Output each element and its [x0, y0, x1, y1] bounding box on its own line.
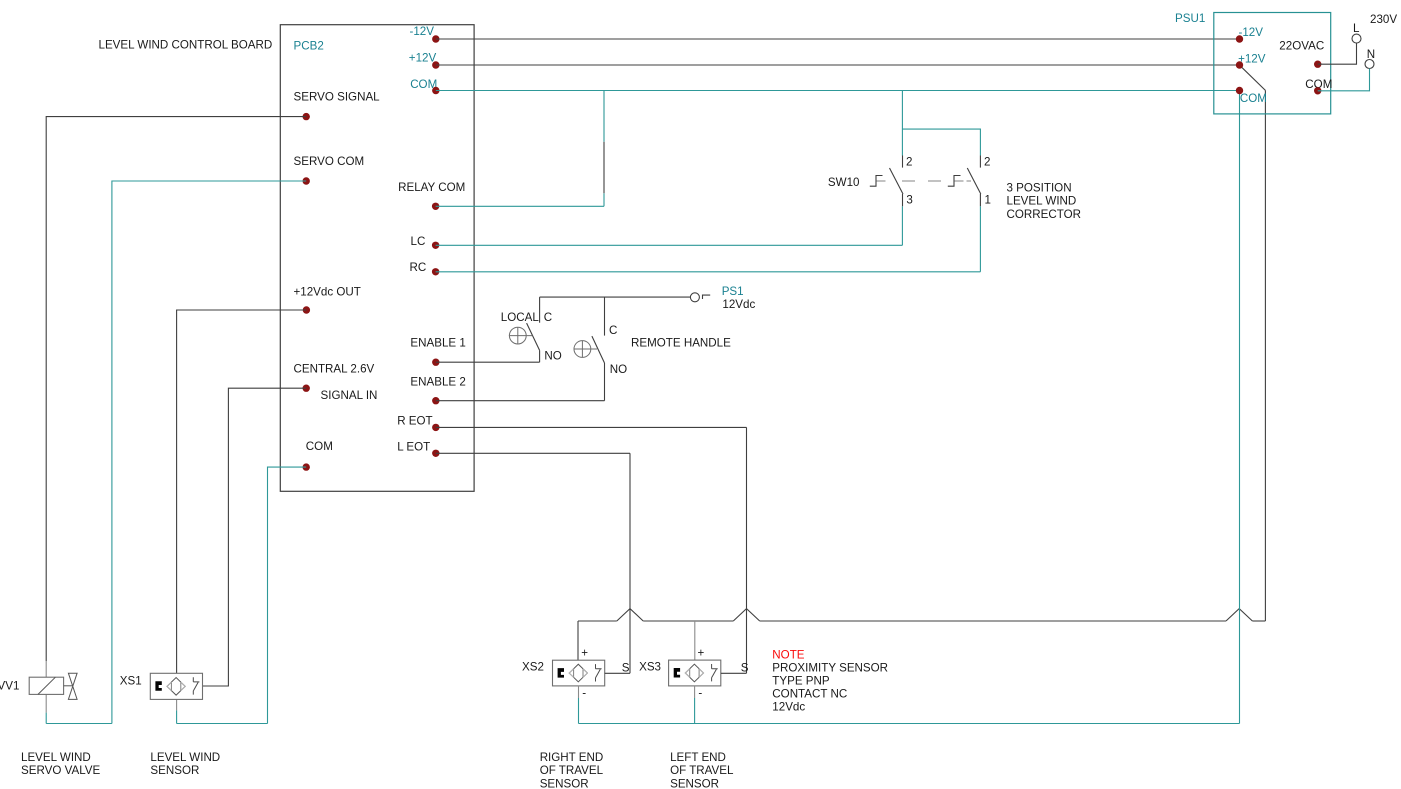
terminal dot RC	[432, 268, 439, 275]
terminal dot -12V	[432, 35, 439, 42]
terminal dot COM	[432, 87, 439, 94]
terminal dot PSU L	[1314, 60, 1321, 67]
SW10 pole2 pin 1 label	[985, 193, 991, 206]
label S (XS2)	[622, 661, 630, 674]
svg-text:SERVO SIGNAL: SERVO SIGNAL	[294, 91, 381, 104]
svg-text:2: 2	[906, 155, 912, 168]
svg-text:R EOT: R EOT	[397, 414, 432, 427]
label + (XS2)	[581, 647, 588, 660]
terminal dot L EOT	[432, 450, 439, 457]
wire SIGNAL IN to XS1 S	[203, 388, 307, 686]
svg-text:CORRECTOR: CORRECTOR	[1007, 208, 1082, 221]
wire PSU +12V diagonal	[1240, 66, 1265, 91]
wire hop over COM riser	[1226, 609, 1252, 621]
svg-text:PCB2: PCB2	[294, 39, 324, 52]
terminal dot ENABLE 2	[432, 397, 439, 404]
caption LEFT END OF TRAVEL SENSOR	[670, 751, 734, 789]
wire XS2 minus teal	[578, 698, 580, 724]
pin label SERVO SIGNAL	[294, 91, 381, 104]
switch REMOTE NO stub	[604, 363, 606, 373]
SW10 pole2 pin 2 label	[984, 155, 990, 168]
svg-text:L EOT: L EOT	[397, 440, 430, 453]
wire ENABLE 1	[436, 361, 540, 363]
svg-text:PSU1: PSU1	[1175, 12, 1205, 25]
pin label COM (PCB2)	[410, 78, 437, 91]
svg-text:CONTACT NC: CONTACT NC	[772, 687, 847, 700]
wire SW10 pole bridge	[902, 129, 980, 155]
wire COM branch to RELAY COM (dark middle)	[603, 142, 605, 194]
wire COM bottom right	[579, 723, 1240, 725]
label L	[1353, 22, 1360, 35]
svg-text:LC: LC	[411, 235, 426, 248]
pin label RC	[410, 261, 427, 274]
SW10 pole2 pin 2 stub	[979, 156, 981, 168]
label N	[1367, 48, 1375, 61]
YV1 top stub	[45, 661, 47, 677]
pin label ENABLE 2	[410, 375, 465, 388]
SW10 pole2 actuator bracket	[948, 176, 961, 187]
pin label RELAY COM	[398, 181, 465, 194]
label - (XS3)	[698, 686, 702, 699]
wire REMOTE NO drop	[604, 373, 606, 401]
svg-text:SENSOR: SENSOR	[150, 764, 199, 777]
svg-text:XS2: XS2	[522, 661, 544, 674]
svg-text:-12V: -12V	[410, 25, 435, 38]
wire +12Vdc OUT to XS1	[177, 310, 307, 673]
svg-text:12Vdc: 12Vdc	[772, 700, 805, 713]
svg-text:SENSOR: SENSOR	[670, 778, 719, 789]
wire XS1 COM bottom	[177, 723, 268, 725]
svg-text:+: +	[698, 647, 705, 660]
XS1 bottom stub gray	[176, 699, 178, 710]
svg-text:LEVEL WIND CONTROL BOARD: LEVEL WIND CONTROL BOARD	[99, 39, 273, 52]
note title	[772, 649, 804, 662]
terminal dot SERVO SIGNAL	[303, 113, 310, 120]
wire COM net horizontal	[436, 90, 1240, 92]
switch LOCAL C stub	[539, 297, 541, 323]
label 22OVAC	[1279, 40, 1324, 53]
YV1 valve body	[68, 673, 77, 699]
terminal dot SERVO COM	[303, 177, 310, 184]
label PCB2	[294, 39, 324, 52]
wire +12V net	[436, 64, 1240, 66]
wire +12V riser to PSU	[1264, 90, 1266, 621]
caption RIGHT END OF TRAVEL SENSOR	[540, 751, 604, 789]
svg-text:RELAY COM: RELAY COM	[398, 181, 465, 194]
label XS2	[522, 661, 544, 674]
pin label L EOT	[397, 440, 430, 453]
proximity sensor XS1	[150, 673, 202, 699]
wire +12V bottom segment b	[643, 620, 733, 622]
wire +12V bottom segment c	[760, 620, 1226, 622]
switch LOCAL NO stub	[539, 350, 541, 362]
label REMOTE HANDLE	[631, 336, 731, 349]
terminal dot +12Vdc OUT	[303, 306, 310, 313]
wire COM branch to RELAY COM (teal lower)	[603, 193, 605, 206]
proximity sensor XS2	[553, 660, 605, 686]
wire XS3 minus teal	[694, 698, 696, 724]
SW10 pole1 pin 2 stub	[902, 156, 904, 168]
terminal dot PSU N COM	[1314, 87, 1321, 94]
terminal dot R EOT	[432, 424, 439, 431]
wire XS3 plus drop	[694, 621, 696, 660]
wire R EOT horizontal	[436, 426, 747, 428]
svg-text:C: C	[544, 311, 552, 324]
pin label -12V (PCB2)	[410, 25, 435, 38]
PS1 terminal circle	[690, 293, 699, 302]
svg-text:PROXIMITY SENSOR: PROXIMITY SENSOR	[772, 661, 888, 674]
XS1 bottom stub teal	[176, 710, 178, 723]
wire RC	[436, 271, 981, 273]
svg-text:230V: 230V	[1370, 13, 1397, 26]
svg-text:NO: NO	[544, 350, 561, 363]
svg-text:ENABLE 1: ENABLE 1	[410, 336, 465, 349]
wire +12V bottom segment d	[1252, 620, 1265, 622]
SW10 mechanical linkage dashes	[877, 180, 972, 182]
svg-text:L: L	[1353, 22, 1360, 35]
svg-text:NOTE: NOTE	[772, 649, 804, 662]
switch REMOTE blade	[592, 336, 605, 363]
PSU1 box	[1214, 13, 1331, 114]
pin label LC	[411, 235, 426, 248]
label SW10	[828, 176, 860, 189]
label 12Vdc	[722, 298, 755, 311]
terminal dot PSU +12V	[1236, 61, 1243, 68]
svg-text:RC: RC	[410, 261, 427, 274]
wire +12V bottom segment a	[578, 620, 617, 622]
wire RELAY COM	[436, 205, 604, 207]
switch REMOTE C stub	[604, 297, 606, 336]
wire LC	[436, 244, 903, 246]
label 230V	[1370, 13, 1397, 26]
svg-text:SIGNAL IN: SIGNAL IN	[321, 389, 378, 402]
svg-text:S: S	[741, 661, 749, 674]
label +12V (PSU1)	[1238, 52, 1266, 65]
SW10 pole1 pin 2 label	[906, 155, 912, 168]
svg-text:12Vdc: 12Vdc	[722, 298, 755, 311]
label NO (REMOTE)	[610, 363, 627, 376]
wire XS3 minus stub	[694, 686, 696, 698]
terminal circle L	[1352, 34, 1361, 43]
terminal dot ENABLE 1	[432, 359, 439, 366]
svg-text:ENABLE 2: ENABLE 2	[410, 375, 465, 388]
wire SERVO SIGNAL	[46, 117, 306, 661]
label LEVEL WIND CONTROL BOARD	[99, 39, 273, 52]
YV1 bottom stub gray	[45, 694, 47, 712]
label XS1	[120, 674, 142, 687]
svg-text:N: N	[1367, 48, 1375, 61]
wire ENABLE 2	[436, 400, 605, 402]
label -12V (PSU1)	[1239, 26, 1264, 39]
svg-text:SW10: SW10	[828, 176, 860, 189]
SW10 pole2 pin 1 stub	[979, 194, 981, 206]
wire SW10 pin3 to LC	[901, 206, 903, 245]
wire R EOT vertical	[746, 427, 748, 673]
terminal dot PSU -12V	[1236, 35, 1243, 42]
svg-text:VV1: VV1	[0, 680, 19, 693]
YV1 valve stub	[64, 685, 73, 687]
svg-text:LEVEL WIND: LEVEL WIND	[1007, 195, 1077, 208]
terminal dot RELAY COM	[432, 203, 439, 210]
wire COM drop to SW10 pole 1	[901, 91, 903, 156]
wire XS2 minus stub	[578, 686, 580, 698]
wire COM branch to RELAY COM (teal upper)	[603, 91, 605, 142]
label - (XS2)	[582, 686, 586, 699]
YV1 bottom stub teal	[45, 713, 47, 724]
svg-text:-: -	[582, 686, 586, 699]
label VV1	[0, 680, 19, 693]
switch REMOTE actuator	[574, 341, 598, 358]
svg-text:3 POSITION: 3 POSITION	[1007, 182, 1072, 195]
SW10 pole1 pin 3 label	[906, 193, 912, 206]
svg-text:OF TRAVEL: OF TRAVEL	[670, 764, 734, 777]
svg-text:NO: NO	[610, 363, 627, 376]
svg-text:OF TRAVEL: OF TRAVEL	[540, 764, 604, 777]
svg-text:XS1: XS1	[120, 674, 142, 687]
svg-text:XS3: XS3	[639, 661, 661, 674]
wire hop over L EOT	[617, 609, 643, 621]
svg-text:TYPE PNP: TYPE PNP	[772, 675, 830, 688]
pin label R EOT	[397, 414, 432, 427]
label 3 POSITION LEVEL WIND CORRECTOR	[1007, 182, 1082, 221]
terminal circle N	[1365, 60, 1374, 69]
wire PSU COM riser	[1239, 91, 1241, 724]
wire COM left to XS1	[268, 467, 307, 723]
SW10 pole1 actuator bracket	[870, 176, 883, 187]
svg-text:CENTRAL 2.6V: CENTRAL 2.6V	[294, 363, 375, 376]
wire hop over R EOT	[733, 609, 759, 621]
wire N drop	[1318, 69, 1370, 91]
wire XS2 S	[605, 672, 630, 674]
label S (XS3)	[741, 661, 749, 674]
svg-text:2: 2	[984, 155, 990, 168]
pin label SERVO COM	[294, 155, 365, 168]
svg-text:LEVEL WIND: LEVEL WIND	[21, 751, 91, 764]
svg-text:+12V: +12V	[409, 52, 437, 65]
SW10 pole1 pin 3 stub	[902, 194, 904, 206]
svg-text:+: +	[581, 647, 588, 660]
svg-text:PS1: PS1	[722, 285, 744, 298]
wire XS3 S	[721, 672, 747, 674]
svg-text:3: 3	[906, 193, 912, 206]
label LOCAL	[501, 311, 540, 324]
svg-text:LOCAL: LOCAL	[501, 311, 540, 324]
svg-text:-: -	[698, 686, 702, 699]
SW10 pole1 blade	[890, 168, 904, 194]
wire L EOT horizontal	[436, 452, 630, 454]
solenoid valve YV1 coil	[29, 677, 63, 694]
svg-text:SERVO COM: SERVO COM	[294, 155, 365, 168]
label C (LOCAL)	[544, 311, 552, 324]
label COM (PSU1)	[1240, 92, 1267, 105]
label C (REMOTE)	[609, 324, 617, 337]
switch LOCAL blade	[527, 323, 540, 350]
label PSU1	[1175, 12, 1205, 25]
svg-text:S: S	[622, 661, 630, 674]
wire SERVO COM	[112, 181, 306, 724]
wire -12V net	[436, 38, 1240, 40]
terminal dot COM left	[303, 463, 310, 470]
pin label +12V (PCB2)	[409, 52, 437, 65]
svg-text:LEFT END: LEFT END	[670, 751, 726, 764]
proximity sensor XS3	[669, 660, 721, 686]
pin label +12Vdc OUT	[294, 286, 361, 299]
terminal dot SIGNAL IN	[303, 385, 310, 392]
label XS3	[639, 661, 661, 674]
wire XS2 plus drop	[577, 621, 579, 660]
PS1 connector mark	[703, 295, 711, 299]
wire PS1 feed	[540, 296, 690, 298]
terminal dot +12V	[432, 61, 439, 68]
terminal dot PSU COM	[1236, 87, 1243, 94]
label + (XS3)	[698, 647, 705, 660]
SW10 pole2 blade	[967, 168, 981, 194]
svg-text:1: 1	[985, 193, 991, 206]
wire YV1 COM bottom	[46, 723, 112, 725]
pin label COM (PCB2 left)	[306, 440, 333, 453]
PCB2 control board outline	[280, 25, 474, 492]
pin label ENABLE 1	[410, 336, 465, 349]
svg-text:COM: COM	[306, 440, 333, 453]
caption LEVEL WIND SENSOR	[150, 751, 220, 777]
svg-text:SERVO VALVE: SERVO VALVE	[21, 764, 101, 777]
wire L drop	[1318, 43, 1357, 64]
svg-text:+12Vdc OUT: +12Vdc OUT	[294, 286, 361, 299]
note text	[772, 661, 888, 713]
svg-text:SENSOR: SENSOR	[540, 778, 589, 789]
pin label SIGNAL IN	[321, 389, 378, 402]
label PS1	[722, 285, 744, 298]
wire L EOT vertical	[629, 453, 631, 673]
wire SW10 pin1 to RC	[979, 206, 981, 271]
svg-text:RIGHT END: RIGHT END	[540, 751, 604, 764]
svg-text:C: C	[609, 324, 617, 337]
svg-text:COM: COM	[1240, 92, 1267, 105]
svg-text:LEVEL WIND: LEVEL WIND	[150, 751, 220, 764]
terminal dot LC	[432, 242, 439, 249]
switch LOCAL actuator	[509, 327, 532, 344]
svg-text:REMOTE HANDLE: REMOTE HANDLE	[631, 336, 731, 349]
caption LEVEL WIND SERVO VALVE	[21, 751, 101, 777]
label NO (LOCAL)	[544, 350, 561, 363]
label COM (PSU1 AC side)	[1305, 78, 1332, 91]
svg-text:22OVAC: 22OVAC	[1279, 40, 1324, 53]
pin label CENTRAL 2.6V	[294, 363, 375, 376]
